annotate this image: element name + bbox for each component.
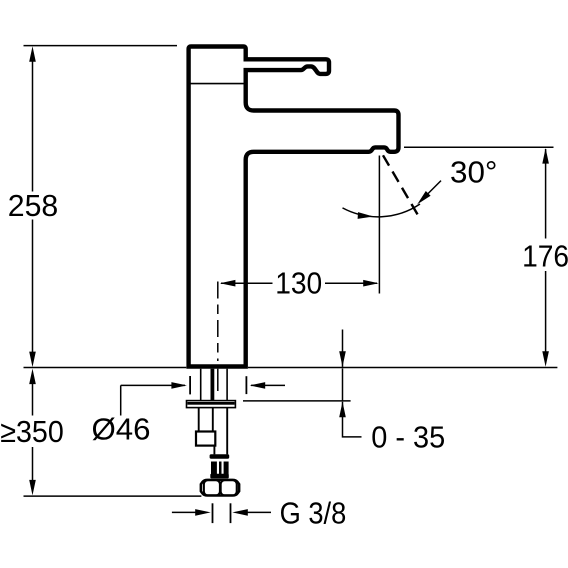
svg-text:G 3/8: G 3/8 xyxy=(280,497,347,531)
svg-text:130: 130 xyxy=(275,267,322,301)
svg-text:30°: 30° xyxy=(450,155,498,189)
svg-text:176: 176 xyxy=(522,239,568,273)
svg-text:0 - 35: 0 - 35 xyxy=(371,421,445,455)
svg-text:≥350: ≥350 xyxy=(0,415,64,449)
svg-text:Ø46: Ø46 xyxy=(92,413,151,447)
svg-text:258: 258 xyxy=(8,189,59,223)
